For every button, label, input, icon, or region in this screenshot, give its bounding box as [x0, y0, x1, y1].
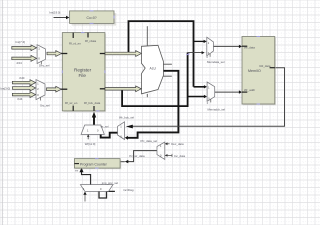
arrowhead into Mem Wr_data	[239, 45, 242, 48]
wire: mux2 input A from source net	[194, 86, 205, 88]
wire: mux1 input B from dest net	[188, 52, 202, 54]
svg-text:Memaddr_sel: Memaddr_sel	[208, 107, 226, 111]
component: Mem/IO box	[242, 37, 276, 106]
svg-text:Program Counter: Program Counter	[80, 163, 108, 167]
bus arrow: mux B output	[47, 86, 62, 92]
arrowhead mux1 B	[202, 51, 205, 54]
component: up-mux into RF (write back select)	[81, 124, 109, 134]
bus arrow: ALU input 1	[105, 51, 141, 57]
junction arrow into mux1 A	[204, 40, 207, 43]
svg-text:Inc_data: Inc_data	[174, 154, 185, 158]
arrowhead mux2 B	[204, 95, 207, 98]
wire: Ins arrow into Cond box	[54, 17, 67, 19]
svg-text:Mem/IO: Mem/IO	[248, 69, 261, 73]
bus arrow: mux B input 2	[12, 85, 35, 91]
wire: ALU bottom stub	[146, 94, 148, 97]
svg-text:Ins[19:0]: Ins[19:0]	[49, 10, 60, 14]
wire: Mem Rd_data return (thin)	[131, 68, 285, 127]
arrowhead into PC wr pin	[125, 160, 129, 163]
sheet border	[1, 0, 3, 225]
svg-text:Wr_data: Wr_data	[244, 45, 255, 49]
component: Cond box	[70, 11, 117, 26]
svg-text:Wr[11:0]: Wr[11:0]	[85, 142, 96, 146]
component: mux2 Memaddr_sel	[207, 82, 226, 111]
wire: ALU op pin (top)	[146, 26, 148, 45]
arrowhead up into RF	[92, 112, 96, 118]
arrowhead into wrbck mux input1 (Mem data)	[126, 125, 133, 129]
svg-text:PC_data_sel: PC_data_sel	[141, 139, 158, 143]
bus arrow: mux A output	[47, 51, 61, 57]
svg-text:4'd4: 4'd4	[16, 61, 22, 65]
arrowhead up into PC bottom	[80, 167, 84, 172]
wire: PC_data_sel mux output to PC	[127, 151, 157, 162]
svg-text:Dec_data: Dec_data	[171, 142, 184, 146]
component: Wr_bck_sel mux (left facing)	[118, 115, 135, 139]
bus arrow: mux A input 2	[12, 56, 37, 62]
RF pin ticks	[72, 33, 74, 38]
svg-text:Pc_wr_data: Pc_wr_data	[129, 154, 145, 158]
svg-text:Rf_rd_en: Rf_rd_en	[69, 41, 81, 45]
arrowhead into Mem Wr_addr	[239, 90, 242, 93]
svg-text:4'd0: 4'd0	[19, 76, 25, 80]
svg-text:Wr_bck_sel: Wr_bck_sel	[119, 115, 134, 119]
svg-text:incrFlag: incrFlag	[123, 188, 134, 192]
svg-text:wr_sel: wr_sel	[101, 124, 109, 128]
svg-text:Co=0?: Co=0?	[87, 16, 97, 20]
wire: mux2 output to Mem Wr_addr	[215, 91, 240, 93]
bus arrow: mux B input 3	[12, 92, 35, 98]
wire: up-mux left input stub	[87, 135, 89, 140]
wire: ALU flag out 1	[163, 63, 172, 65]
component: left mux A (Dec_sel)	[37, 45, 50, 68]
wire: jmp mux select stub with up arrow	[84, 194, 86, 201]
wire: jmp mux bottom U loop	[99, 191, 115, 198]
svg-text:Register: Register	[74, 68, 92, 73]
wire: Inc_data stub	[165, 154, 172, 156]
component: PC_data_sel mux (left facing)	[141, 139, 165, 159]
arrowhead mux2 A	[204, 85, 207, 88]
wire: register dest net (thick) lower loop	[122, 53, 188, 107]
wire: PC bottom feed from jmp mux	[82, 171, 91, 185]
svg-text:Rd_data: Rd_data	[260, 64, 271, 68]
wire: mux1 input A from source net	[194, 40, 205, 42]
svg-text:Memdata_sel: Memdata_sel	[207, 60, 225, 64]
svg-text:ALU: ALU	[150, 66, 157, 70]
svg-text:Rf_bck_data: Rf_bck_data	[84, 101, 101, 105]
component: Program Counter box	[74, 159, 121, 173]
component: ALU	[142, 45, 164, 94]
wire: mux1 output to Mem Wr_data	[213, 45, 239, 47]
Mem blue pin markers	[257, 36, 261, 38]
RF blue pin markers	[81, 32, 85, 34]
wire: ALU flag out 2	[163, 75, 171, 77]
bus arrow: mux A input 1	[12, 45, 142, 98]
arrowhead up into rf-up mux	[99, 131, 102, 134]
wire: up-mux output arrow into RF bck_data	[93, 116, 95, 125]
svg-text:Rf_wr_en: Rf_wr_en	[65, 101, 78, 105]
component: Register File box	[61, 33, 106, 113]
component: jmp_pc_sel mux (down facing) below PC	[80, 181, 118, 191]
arrowhead into wrbck mux input2 (ALU result)	[125, 136, 128, 140]
svg-text:Wr_addr: Wr_addr	[244, 88, 255, 92]
svg-text:jmp_pnc_sel: jmp_pnc_sel	[101, 181, 119, 185]
svg-text:Ins[3:0]: Ins[3:0]	[1, 87, 11, 91]
wire: ALU result net (thick)	[127, 71, 179, 138]
bus arrow: mux B input 1	[12, 80, 35, 86]
wire: mux2 input B from dest net	[188, 96, 205, 98]
wire: Dec_data stub	[165, 143, 170, 145]
svg-text:Ins[7:4]: Ins[7:4]	[16, 40, 26, 44]
PC right pin stub	[120, 161, 125, 163]
svg-text:File: File	[79, 73, 87, 78]
Mem pin ticks	[242, 45, 247, 47]
wire: register source net (thick) top loop	[129, 21, 194, 87]
svg-text:Rf_rdata: Rf_rdata	[85, 39, 96, 43]
component: mux1 Memdata_sel	[207, 37, 225, 64]
lavender net tap mark	[186, 54, 189, 55]
svg-text:4'd4: 4'd4	[17, 97, 23, 101]
bus arrow: ALU input 2	[105, 86, 141, 92]
svg-text:Dec_sel: Dec_sel	[39, 63, 50, 67]
wire: wrbck mux output to rf-up mux (thick)	[101, 133, 118, 138]
svg-text:Src_sel: Src_sel	[40, 103, 50, 107]
component: left mux B (Src_sel)	[36, 80, 50, 108]
